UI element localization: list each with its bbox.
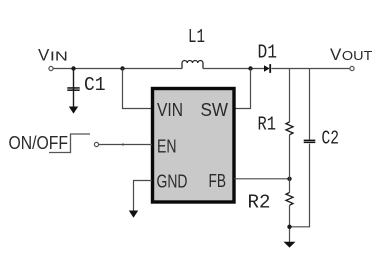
wire: D1 to VOUT terminal — [272, 68, 351, 70]
node E: C2/R2 foot junction — [287, 225, 291, 229]
ground (IC GND) — [129, 211, 138, 218]
svg-text:SW: SW — [201, 100, 229, 120]
svg-text:D1: D1 — [258, 41, 278, 63]
svg-text:R2: R2 — [248, 192, 271, 214]
diode D1 — [264, 64, 270, 73]
wire: C2 riser from output rail — [309, 69, 311, 140]
svg-text:L1: L1 — [188, 26, 205, 48]
svg-text:C2: C2 — [322, 127, 340, 149]
terminal VOUT — [350, 66, 354, 70]
wire: top rail from VIN terminal to L1 — [53, 68, 182, 70]
svg-text:EN: EN — [157, 136, 177, 156]
node A: C1 tap junction — [71, 66, 75, 70]
capacitor C1 — [67, 69, 79, 108]
resistor R1 — [286, 122, 293, 135]
wire: FB pin to divider — [234, 178, 290, 180]
capacitor C2 — [304, 140, 316, 144]
wire: R2 to output ground — [289, 205, 291, 242]
resistor R2 — [286, 193, 293, 206]
wire: GND pin to ground — [134, 181, 153, 212]
wire: C2 bottom leg to divider foot — [290, 144, 310, 227]
wire: drop from top rail to VIN pin of U1 — [123, 69, 153, 109]
terminal EN input — [94, 142, 98, 146]
wire: SW pin riser — [234, 69, 251, 109]
ground (output) — [284, 242, 296, 248]
svg-text:GND: GND — [157, 171, 188, 191]
node B: VIN-pin tap junction — [120, 66, 124, 70]
node F: faint joint on EN wire — [122, 143, 124, 145]
inductor L1 — [182, 61, 203, 69]
wire: EN terminal to EN pin — [99, 144, 152, 146]
svg-text:FB: FB — [209, 171, 227, 191]
IC U1 body — [153, 89, 235, 203]
ON/OFF step signal symbol — [49, 134, 90, 153]
svg-text:C1: C1 — [84, 74, 106, 96]
wire: L1 to D1 — [203, 68, 264, 70]
ground (below C1) — [69, 107, 78, 114]
svg-text:VIN: VIN — [38, 46, 68, 65]
svg-text:VOUT: VOUT — [330, 45, 372, 64]
node C: SW riser junction — [248, 66, 252, 70]
svg-text:ON/OFF: ON/OFF — [9, 133, 69, 153]
svg-text:R1: R1 — [258, 113, 277, 135]
wire: R1 to FB node — [289, 135, 291, 193]
svg-text:VIN: VIN — [157, 100, 183, 120]
terminal VIN — [49, 66, 53, 70]
wire: output rail riser down to R1 — [289, 69, 291, 123]
node D: FB junction — [287, 177, 291, 181]
